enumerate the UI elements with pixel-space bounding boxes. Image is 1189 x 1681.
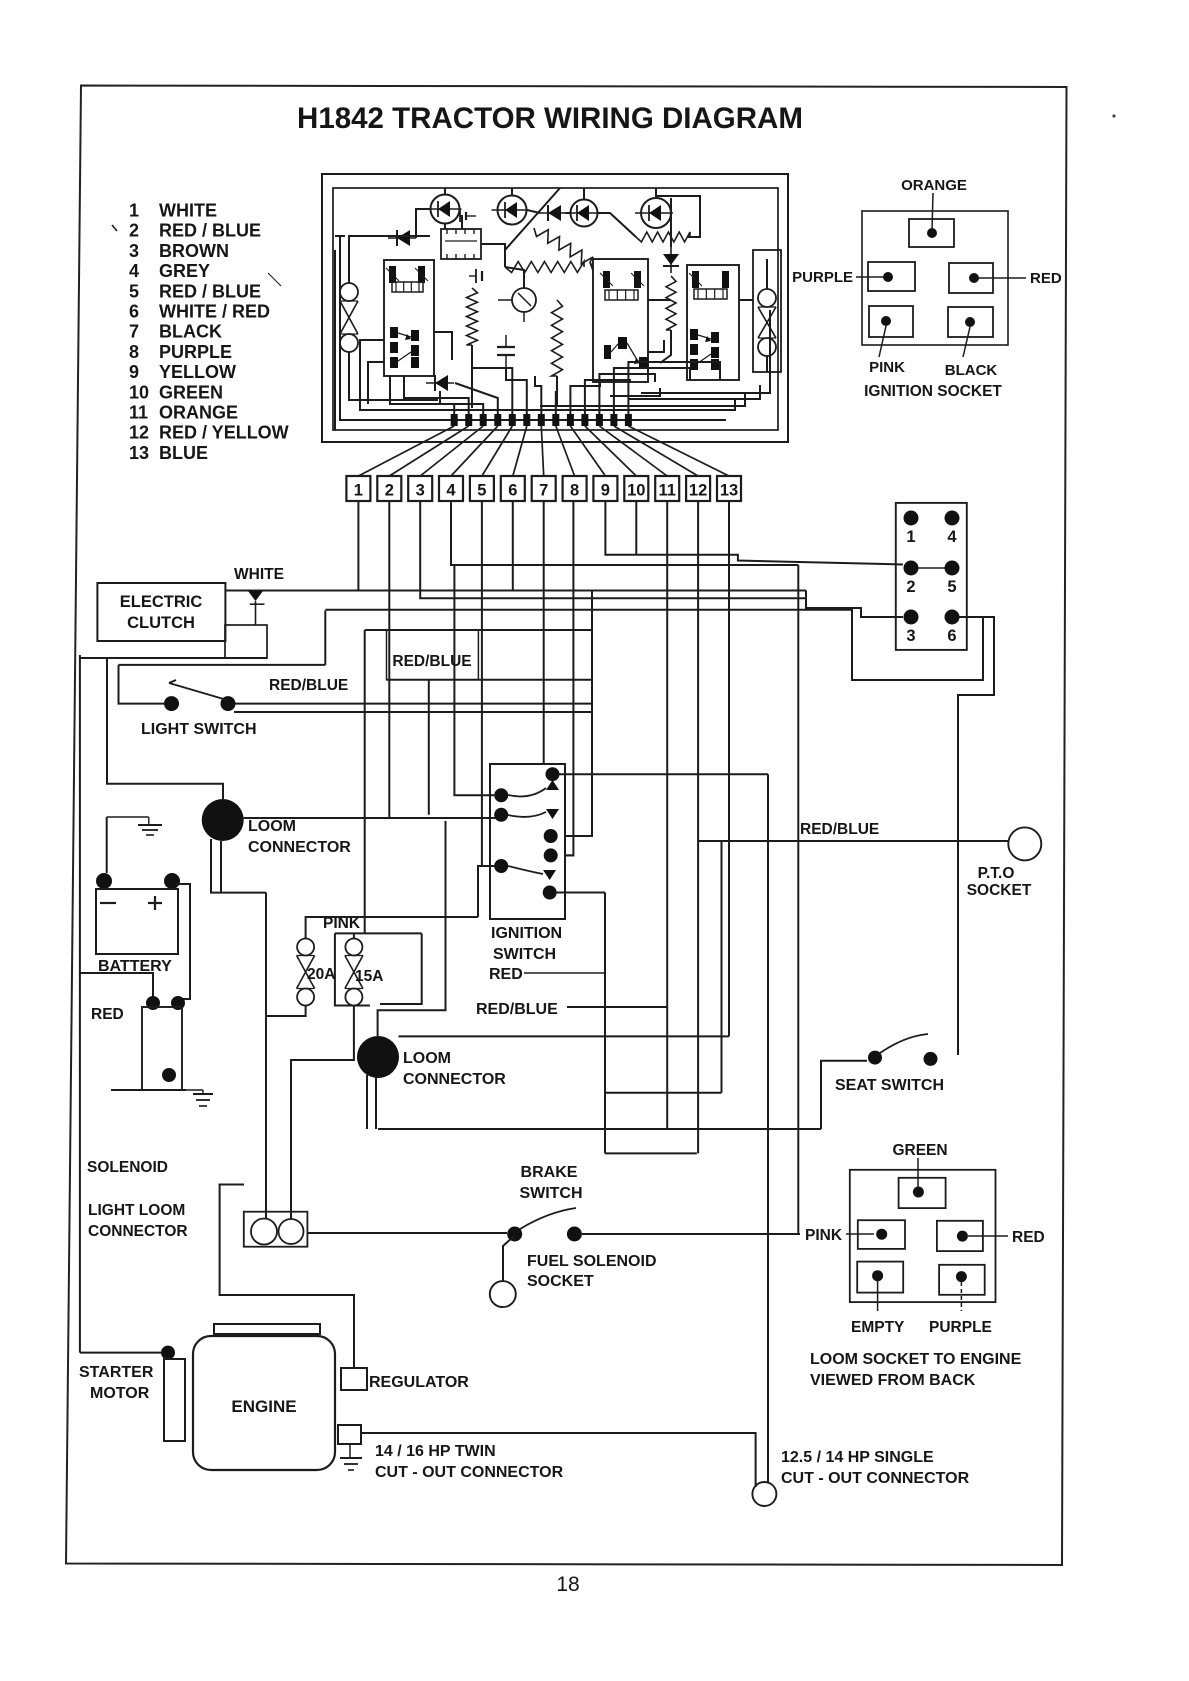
- wire solenoid left wire: [80, 973, 153, 996]
- wire box11 drop: [666, 501, 668, 1007]
- svg-text:EMPTY: EMPTY: [851, 1319, 905, 1336]
- wire 15A bottom wire: [291, 1006, 354, 1220]
- svg-text:RED: RED: [91, 1006, 124, 1023]
- PTO socket circle: [1008, 827, 1041, 860]
- brake switch: [507, 1227, 522, 1242]
- wire twin cutout wire: [361, 1433, 756, 1487]
- empty stem: [877, 1281, 879, 1311]
- RED/BLUE wire label box: [387, 630, 479, 680]
- svg-text:RED/BLUE: RED/BLUE: [392, 653, 471, 670]
- svg-text:ORANGE: ORANGE: [901, 177, 967, 194]
- svg-text:REGULATOR: REGULATOR: [369, 1374, 469, 1391]
- wire vertical x364: [364, 630, 366, 933]
- svg-text:SWITCH: SWITCH: [519, 1185, 582, 1202]
- wire fuse box top: [335, 932, 422, 934]
- wire loom1 bottom stem b: [220, 841, 222, 893]
- svg-text:5: 5: [129, 281, 139, 301]
- svg-text:10: 10: [627, 482, 645, 500]
- svg-text:RED/BLUE: RED/BLUE: [476, 1001, 558, 1018]
- resistor R3: [636, 232, 690, 242]
- wire ignition stub2: [565, 854, 573, 856]
- relay K2 block: [593, 259, 648, 382]
- wire regulator wire: [220, 1185, 354, 1369]
- svg-text:RED/BLUE: RED/BLUE: [269, 677, 348, 694]
- svg-text:RED / YELLOW: RED / YELLOW: [159, 423, 289, 443]
- wire vertical x428: [428, 680, 430, 815]
- wire red/blue bus y609 to pin6 loop: [325, 610, 983, 680]
- wire light switch red/blue wire: [236, 703, 593, 705]
- svg-text:2: 2: [129, 221, 139, 241]
- wire bus y665: [119, 664, 326, 666]
- svg-text:RED: RED: [489, 966, 523, 983]
- svg-text:3: 3: [906, 627, 915, 645]
- svg-text:GREEN: GREEN: [892, 1142, 947, 1159]
- module staircase wires: [390, 376, 454, 415]
- wire loom2 right feed: [378, 821, 446, 1036]
- svg-text:CUT - OUT CONNECTOR: CUT - OUT CONNECTOR: [375, 1464, 564, 1481]
- svg-text:CONNECTOR: CONNECTOR: [248, 839, 351, 856]
- scan speck top right: [1112, 114, 1115, 117]
- svg-text:LOOM: LOOM: [248, 818, 296, 835]
- wire brake pink wire: [582, 1233, 800, 1235]
- svg-text:11: 11: [129, 403, 148, 423]
- svg-text:LOOM: LOOM: [403, 1050, 451, 1067]
- svg-text:6: 6: [129, 302, 139, 322]
- wire box8 drop: [565, 501, 573, 855]
- wire box13 drop: [728, 501, 730, 1036]
- control module inner box: [333, 188, 778, 430]
- svg-text:1: 1: [129, 201, 139, 221]
- svg-text:PINK: PINK: [869, 359, 905, 376]
- svg-text:4: 4: [129, 261, 139, 281]
- wire ignition top right wire: [560, 773, 769, 775]
- wire y1153 link: [605, 1152, 697, 1154]
- electric clutch box: [97, 583, 225, 641]
- wire y1036 wire right: [399, 1035, 729, 1037]
- svg-text:LOOM SOCKET TO ENGINE: LOOM SOCKET TO ENGINE: [810, 1351, 1022, 1368]
- svg-text:VIEWED FROM BACK: VIEWED FROM BACK: [810, 1372, 976, 1389]
- wire box11 vertical to loop: [666, 1007, 668, 1130]
- wire light loom to brake: [307, 1232, 507, 1234]
- svg-text:13: 13: [720, 482, 738, 500]
- fan-out lines pins to boxes: [358, 426, 454, 476]
- svg-text:10: 10: [129, 382, 149, 402]
- svg-text:BLUE: BLUE: [159, 443, 208, 463]
- 6-pin connector: [896, 503, 967, 650]
- svg-text:SOCKET: SOCKET: [527, 1273, 594, 1290]
- svg-text:BRAKE: BRAKE: [521, 1164, 578, 1181]
- wire bus y658: [80, 657, 267, 659]
- svg-text:CONNECTOR: CONNECTOR: [88, 1223, 188, 1240]
- svg-text:RED / BLUE: RED / BLUE: [159, 281, 261, 301]
- svg-text:ELECTRIC: ELECTRIC: [120, 593, 203, 611]
- svg-text:RED / BLUE: RED / BLUE: [159, 221, 261, 241]
- wire box10 drop: [635, 501, 637, 555]
- starter motor: [161, 1346, 175, 1360]
- svg-text:8: 8: [570, 482, 579, 500]
- regulator box: [341, 1368, 367, 1390]
- battery: [96, 873, 112, 889]
- wire light switch red/blue wire 2: [234, 711, 592, 713]
- svg-text:GREY: GREY: [159, 261, 210, 281]
- wire pink dash to socket: [846, 1233, 874, 1235]
- wire box6 drop: [512, 501, 514, 591]
- wire pink riser to ignition: [478, 866, 501, 917]
- svg-text:5: 5: [477, 482, 486, 500]
- svg-text:WHITE: WHITE: [234, 566, 284, 583]
- svg-text:ENGINE: ENGINE: [231, 1397, 296, 1416]
- svg-text:ORANGE: ORANGE: [159, 403, 238, 423]
- black stem: [963, 327, 970, 357]
- ignition socket box: [862, 211, 1008, 345]
- svg-text:FUEL SOLENOID: FUEL SOLENOID: [527, 1253, 657, 1270]
- svg-text:P.T.O: P.T.O: [978, 865, 1015, 882]
- solenoid: [146, 996, 160, 1010]
- transistor circle Q5: [512, 288, 536, 312]
- wire loom2 stem b: [375, 1077, 377, 1129]
- svg-text:WHITE: WHITE: [159, 201, 217, 221]
- lamp L2: [498, 196, 527, 225]
- svg-text:SOCKET: SOCKET: [967, 882, 1032, 899]
- numbered connector boxes 1-13: [346, 476, 370, 501]
- capacitor C1: [497, 346, 515, 348]
- wire seat switch left riser: [821, 1061, 867, 1129]
- engine box: [193, 1336, 335, 1470]
- gate symbol G2: [475, 269, 477, 283]
- svg-text:YELLOW: YELLOW: [159, 362, 236, 382]
- transistor cluster K1: [390, 327, 398, 338]
- svg-text:PURPLE: PURPLE: [929, 1319, 992, 1336]
- red dash bottom: [968, 1235, 1008, 1237]
- transistor cluster K2: [604, 345, 611, 359]
- svg-text:4: 4: [446, 482, 456, 500]
- relay K3 block: [687, 265, 739, 380]
- wire pin6 stub right: [958, 617, 994, 1055]
- svg-text:7: 7: [129, 322, 139, 342]
- wire loom2 stem a: [366, 1075, 368, 1129]
- svg-text:15A: 15A: [355, 968, 383, 985]
- fuel solenoid socket circle: [490, 1281, 516, 1307]
- wire fuse box left: [335, 933, 370, 1005]
- orange stem: [932, 193, 933, 230]
- wire box9 drop and bus to pin2: [605, 501, 903, 565]
- wire left bus x80: [79, 655, 81, 1353]
- loom socket to engine box: [850, 1170, 996, 1302]
- diode D3: [670, 247, 672, 273]
- svg-text:PINK: PINK: [805, 1227, 843, 1244]
- transistor cluster K3: [690, 329, 698, 340]
- fuse 20A: [297, 939, 314, 956]
- svg-text:4: 4: [947, 528, 957, 546]
- wire bus riser x325: [324, 611, 326, 665]
- wire loom connector 1 wire to ignition: [244, 813, 501, 818]
- svg-text:MOTOR: MOTOR: [90, 1385, 150, 1402]
- resistor R1 diagonal: [534, 228, 593, 264]
- diode D1: [388, 237, 416, 239]
- page frame border: [66, 86, 1067, 1566]
- wire fuel solenoid stem: [503, 1236, 514, 1281]
- red dash: [978, 277, 1026, 279]
- wire red/blue loop: [567, 1006, 667, 1008]
- wire 20A bottom wire: [266, 1006, 306, 1017]
- wire fuse box right: [380, 933, 422, 1004]
- wire box3 drop and bus: [420, 501, 806, 598]
- fuse hourglass left: [340, 283, 358, 301]
- wire box7 drop: [543, 501, 545, 764]
- wire light loom left riser: [265, 893, 267, 1219]
- svg-text:LIGHT LOOM: LIGHT LOOM: [88, 1202, 185, 1219]
- seat switch: [868, 1051, 882, 1065]
- wire y1092 link: [605, 1092, 722, 1094]
- wire ignition bottom wire: [556, 892, 605, 894]
- wire 15A top stem: [353, 933, 355, 938]
- light switch: [164, 696, 179, 711]
- light loom connector: [244, 1212, 308, 1247]
- wire x605 vertical: [604, 893, 606, 1154]
- svg-text:PURPLE: PURPLE: [159, 342, 232, 362]
- svg-text:12.5 / 14 HP SINGLE: 12.5 / 14 HP SINGLE: [781, 1449, 934, 1466]
- svg-text:STARTER: STARTER: [79, 1364, 154, 1381]
- wire light switch left feed: [119, 665, 165, 704]
- svg-text:9: 9: [129, 362, 139, 382]
- cutout ground: [340, 1457, 362, 1459]
- fuse 15A: [345, 939, 362, 956]
- diode D2: [539, 212, 567, 214]
- svg-text:GREEN: GREEN: [159, 382, 223, 402]
- lamp L1: [431, 195, 460, 224]
- wire box5 drop: [481, 501, 483, 866]
- svg-text:11: 11: [658, 482, 675, 500]
- cutout box: [338, 1425, 361, 1444]
- svg-text:CUT - OUT CONNECTOR: CUT - OUT CONNECTOR: [781, 1470, 970, 1487]
- svg-text:IGNITION: IGNITION: [491, 925, 562, 942]
- wire single cutout vertical: [767, 774, 769, 1482]
- svg-text:6: 6: [947, 627, 956, 645]
- wire battery minus drop: [106, 817, 108, 873]
- diode D4: [426, 382, 454, 384]
- wire box4 drop and bus: [451, 501, 798, 565]
- svg-text:2: 2: [385, 482, 394, 500]
- wire ignition feed vertical: [565, 591, 592, 837]
- svg-text:14 / 16 HP TWIN: 14 / 16 HP TWIN: [375, 1443, 496, 1460]
- control module outer box: [322, 174, 788, 442]
- module internal wires: [349, 236, 430, 283]
- pink stem: [879, 326, 886, 357]
- clutch connector sub-box: [225, 625, 267, 658]
- engine top bar: [214, 1324, 320, 1334]
- svg-text:H1842 TRACTOR WIRING DIAGRAM: H1842 TRACTOR WIRING DIAGRAM: [297, 102, 803, 135]
- svg-text:RED: RED: [1030, 270, 1062, 287]
- svg-text:7: 7: [539, 482, 548, 500]
- wire bus y680: [387, 679, 593, 681]
- svg-text:RED/BLUE: RED/BLUE: [800, 821, 879, 838]
- resistor R4 vertical: [467, 288, 478, 345]
- wire starter feed: [80, 1352, 161, 1354]
- svg-text:20A: 20A: [307, 966, 335, 983]
- svg-text:12: 12: [689, 482, 707, 500]
- solenoid ground: [193, 1093, 213, 1095]
- loom connector 2: [357, 1036, 399, 1078]
- wire pink wire: [306, 917, 478, 939]
- wire white bus clutch to box6: [226, 590, 807, 592]
- svg-text:8: 8: [129, 342, 139, 362]
- svg-text:PURPLE: PURPLE: [792, 269, 853, 286]
- svg-text:1: 1: [906, 528, 915, 546]
- wire bus y630: [365, 629, 592, 631]
- svg-text:12: 12: [129, 423, 149, 443]
- scan tick legend: [112, 225, 117, 231]
- wire red wire stub: [524, 972, 605, 974]
- wire loom1 bottom stem: [211, 839, 266, 893]
- svg-text:CONNECTOR: CONNECTOR: [403, 1071, 506, 1088]
- ignition switch: [490, 764, 565, 919]
- purple stem: [960, 1282, 962, 1311]
- svg-text:WHITE / RED: WHITE / RED: [159, 302, 270, 322]
- svg-text:3: 3: [416, 482, 425, 500]
- svg-text:BLACK: BLACK: [945, 362, 998, 379]
- svg-text:BROWN: BROWN: [159, 241, 229, 261]
- svg-text:SEAT SWITCH: SEAT SWITCH: [835, 1077, 944, 1094]
- wire vertical to pink wire: [797, 565, 799, 1234]
- ground symbol above battery: [107, 816, 149, 818]
- svg-text:6: 6: [508, 482, 517, 500]
- svg-text:3: 3: [129, 241, 139, 261]
- wire x721 riser to pto: [721, 841, 723, 1093]
- svg-text:18: 18: [556, 1573, 579, 1596]
- wire box1 to white bus: [357, 501, 359, 591]
- wire ignition dot1 feed: [454, 565, 494, 795]
- fuse hourglass right: [758, 289, 776, 307]
- wire battery plus to solenoid: [176, 884, 190, 1003]
- wire loom1 feed left: [107, 658, 223, 799]
- svg-text:BLACK: BLACK: [159, 322, 222, 342]
- lamp L3: [571, 200, 598, 227]
- antenna symbol on white wire: [248, 591, 263, 601]
- fuse hourglass right frame: [753, 250, 781, 372]
- svg-text:1: 1: [354, 482, 363, 500]
- svg-text:9: 9: [601, 482, 610, 500]
- resistor R2: [505, 262, 584, 273]
- svg-text:2: 2: [906, 578, 915, 596]
- resistor R5 vertical: [552, 300, 563, 376]
- svg-text:LIGHT SWITCH: LIGHT SWITCH: [141, 721, 257, 738]
- wire box2 drop: [388, 501, 390, 818]
- wire box12 drop: [697, 501, 699, 1153]
- resistor R6 vertical: [666, 276, 676, 330]
- green stem: [917, 1158, 919, 1188]
- single cutout circle: [752, 1482, 776, 1506]
- svg-text:13: 13: [129, 443, 149, 463]
- wire pin3 staircase: [806, 591, 903, 618]
- relay K1 block: [384, 260, 434, 376]
- svg-text:SOLENOID: SOLENOID: [87, 1159, 168, 1176]
- lamp L4: [641, 198, 671, 228]
- gate symbol G1: [459, 210, 461, 222]
- wire pto red/blue wire: [697, 840, 1008, 842]
- svg-text:RED: RED: [1012, 1229, 1045, 1246]
- loom connector 1: [202, 799, 244, 841]
- module pin row 1-13: [451, 414, 458, 426]
- svg-text:CLUTCH: CLUTCH: [127, 614, 195, 632]
- IC block U1: [441, 229, 481, 259]
- svg-text:IGNITION SOCKET: IGNITION SOCKET: [864, 383, 1002, 400]
- purple dash: [856, 276, 884, 278]
- wire loop bottom: [378, 1128, 821, 1130]
- svg-text:5: 5: [947, 578, 956, 596]
- svg-text:SWITCH: SWITCH: [493, 946, 556, 963]
